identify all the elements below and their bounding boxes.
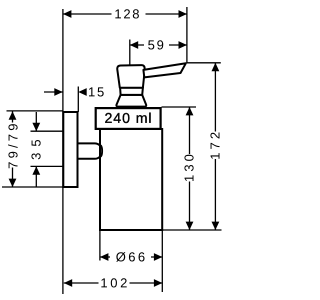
svg-text:Ø66: Ø66 <box>116 249 148 264</box>
svg-text:35: 35 <box>28 133 43 159</box>
svg-text:15: 15 <box>88 84 106 99</box>
svg-text:102: 102 <box>100 275 130 290</box>
svg-text:79/79: 79/79 <box>5 120 20 169</box>
svg-text:130: 130 <box>182 151 197 182</box>
svg-text:172: 172 <box>208 129 223 160</box>
svg-text:59: 59 <box>148 37 166 52</box>
svg-text:128: 128 <box>114 6 141 21</box>
svg-text:240 ml: 240 ml <box>105 111 153 127</box>
